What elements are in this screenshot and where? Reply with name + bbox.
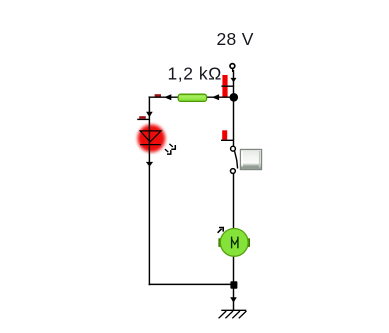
svg-text:28 V: 28 V bbox=[217, 29, 254, 49]
svg-text:1,2 kΩ: 1,2 kΩ bbox=[168, 64, 222, 84]
